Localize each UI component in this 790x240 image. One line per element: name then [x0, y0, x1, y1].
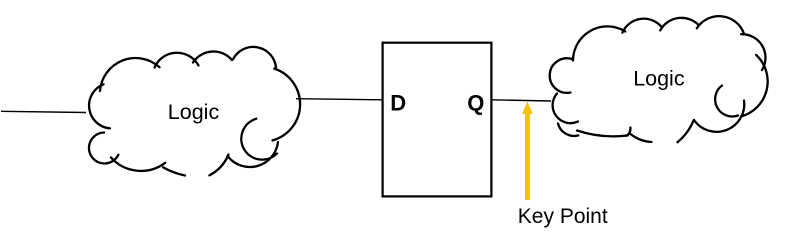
cloud bump T1	[573, 26, 625, 60]
cloud bump Q	[694, 101, 744, 132]
cloud bump T2	[622, 19, 662, 33]
svg-text:Logic: Logic	[633, 66, 685, 90]
cloud curl P	[241, 119, 277, 160]
svg-text:Logic: Logic	[168, 100, 220, 124]
svg-text:Key Point: Key Point	[518, 205, 608, 228]
svg-text:D: D	[390, 91, 406, 116]
cloud bump T2	[155, 53, 199, 68]
left logic cloud	[89, 47, 300, 176]
cloud bump B1	[111, 158, 165, 171]
cloud bump B2	[678, 121, 694, 143]
cloud curl P	[715, 86, 738, 117]
cloud bump L0	[550, 58, 572, 93]
key point arrow	[523, 102, 533, 200]
wire cloud to D input	[296, 99, 383, 100]
svg-text:Q: Q	[467, 91, 484, 116]
cloud bump T3	[660, 18, 699, 31]
cloud bump B2	[209, 155, 228, 176]
cloud bump Q	[228, 142, 279, 167]
cloud bump R1	[741, 55, 768, 117]
cloud bump B1b	[163, 167, 185, 175]
cloud bump B1	[577, 131, 628, 137]
flip-flop rectangle	[383, 43, 492, 197]
cloud bump L1	[553, 94, 578, 124]
cloud bump L2	[558, 124, 578, 136]
cloud bump B1b	[630, 133, 652, 142]
cloud bump T1	[100, 58, 160, 91]
cloud bump R1	[273, 69, 301, 141]
cloud bump T4	[697, 16, 744, 34]
cloud bump L2	[89, 133, 118, 164]
cloud bump B1 end tick	[626, 128, 631, 136]
right logic cloud	[550, 16, 768, 142]
cloud bump L1	[89, 84, 110, 128]
wire Q output to right cloud	[493, 100, 552, 101]
cloud bump T3	[193, 51, 232, 62]
cloud bump R0	[741, 34, 765, 70]
cloud bump T4	[233, 47, 276, 68]
wire into left cloud	[1, 111, 86, 112]
